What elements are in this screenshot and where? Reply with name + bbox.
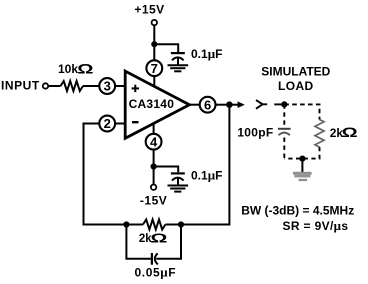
wire lower loop C3 xyxy=(126,225,151,259)
wire input to R1 xyxy=(48,85,60,87)
svg-text:-15V: -15V xyxy=(140,193,168,207)
svg-text:SIMULATED: SIMULATED xyxy=(261,64,330,78)
dashed wire load top and right upper xyxy=(284,104,319,119)
svg-text:10k: 10k xyxy=(58,62,78,76)
svg-text:INPUT: INPUT xyxy=(1,78,40,92)
+15V terminal xyxy=(152,20,157,25)
wire bottom rail left segment xyxy=(126,224,143,226)
wire +15V down to pin7 xyxy=(153,25,155,60)
svg-text:Ω: Ω xyxy=(342,124,358,140)
wire feedback left: pin2 to bottom rail xyxy=(84,124,127,225)
svg-text:4: 4 xyxy=(150,134,158,149)
label R2 2kOhm xyxy=(139,231,168,246)
svg-text:BW (-3dB) = 4.5MHz: BW (-3dB) = 4.5MHz xyxy=(241,204,354,218)
junction dot feedback right xyxy=(178,221,184,227)
capacitor C3 curved plate xyxy=(155,253,158,264)
plus sign noninverting input xyxy=(132,85,139,92)
wire pin2 to opamp xyxy=(115,123,127,125)
pin 4 circle xyxy=(146,134,162,150)
junction dot feedback left xyxy=(123,221,129,227)
resistor RL 2k load xyxy=(315,120,324,148)
wire feedback right vertical xyxy=(181,105,229,225)
dashed wire load left lower xyxy=(283,138,285,159)
capacitor C2 curved plate xyxy=(172,178,184,181)
wire pin4 down to -15V xyxy=(153,149,155,184)
svg-text:SR = 9V/μs: SR = 9V/μs xyxy=(283,218,349,233)
label 10kOhm xyxy=(58,61,94,77)
svg-text:0.05μF: 0.05μF xyxy=(135,265,177,280)
connector chevron xyxy=(256,100,267,109)
junction dot top xyxy=(151,41,157,47)
pin 2 circle xyxy=(99,116,115,132)
-15V terminal xyxy=(151,185,156,190)
svg-text:CA3140: CA3140 xyxy=(129,97,175,111)
wire branch to C2 xyxy=(154,167,179,173)
ground for C1 xyxy=(168,65,189,71)
svg-text:2: 2 xyxy=(104,116,111,131)
op-amp U1 CA3140 triangle xyxy=(125,71,189,138)
dashed wire chevron to load node xyxy=(274,103,284,105)
svg-text:LOAD: LOAD xyxy=(278,79,314,93)
svg-text:0.1μF: 0.1μF xyxy=(191,46,222,61)
wire C1 to ground xyxy=(177,57,179,65)
wire C3 to right xyxy=(156,225,181,259)
capacitor C1 0.1uF top plate xyxy=(171,52,185,54)
load ground symbol gray bars xyxy=(293,172,312,181)
input terminal xyxy=(43,83,48,88)
resistor R 10k xyxy=(61,81,84,91)
capacitor C3 straight plate xyxy=(151,253,153,265)
minus sign inverting input xyxy=(132,121,139,123)
wire pin6 to output node xyxy=(215,104,229,106)
capacitor C2 0.1uF top plate xyxy=(171,172,185,174)
wire bottom rail right segment xyxy=(165,224,181,226)
svg-text:Ω: Ω xyxy=(77,61,93,77)
wire opamp apex to pin6 xyxy=(188,104,200,106)
svg-text:100pF: 100pF xyxy=(237,126,273,140)
wire pin7 stub to triangle xyxy=(153,76,155,87)
pin 6 circle xyxy=(200,97,216,113)
svg-text:Ω: Ω xyxy=(150,231,167,246)
dashed wire load right lower and bottom xyxy=(284,147,319,159)
capacitor C1 curved plate xyxy=(172,57,184,60)
junction dot bottom xyxy=(151,163,157,169)
svg-text:6: 6 xyxy=(204,97,211,112)
wire pin3 to opamp xyxy=(115,85,127,87)
output arrow xyxy=(229,101,244,108)
load ground junction dot xyxy=(299,156,305,162)
capacitor CL curved plate xyxy=(279,133,290,136)
svg-text:3: 3 xyxy=(104,79,111,94)
pin 3 circle xyxy=(99,78,115,94)
capacitor CL 100pF top plate xyxy=(278,128,291,130)
label RL 2kOhm xyxy=(330,124,358,140)
ground for C2 xyxy=(168,186,189,192)
wire pin4 stub to triangle xyxy=(153,123,155,134)
wire to load ground xyxy=(301,159,303,173)
svg-text:0.1μF: 0.1μF xyxy=(191,167,222,182)
wire C2 to ground xyxy=(177,177,179,185)
svg-text:+15V: +15V xyxy=(134,3,164,17)
resistor R2 2k feedback xyxy=(143,220,165,230)
pin 7 circle xyxy=(146,60,162,76)
dashed wire load left upper xyxy=(283,104,285,127)
wire branch to C1 xyxy=(154,44,178,52)
svg-text:7: 7 xyxy=(151,61,158,76)
output junction dot xyxy=(226,101,233,108)
load node dot xyxy=(281,101,287,107)
wire R1 to pin3 xyxy=(83,85,100,87)
